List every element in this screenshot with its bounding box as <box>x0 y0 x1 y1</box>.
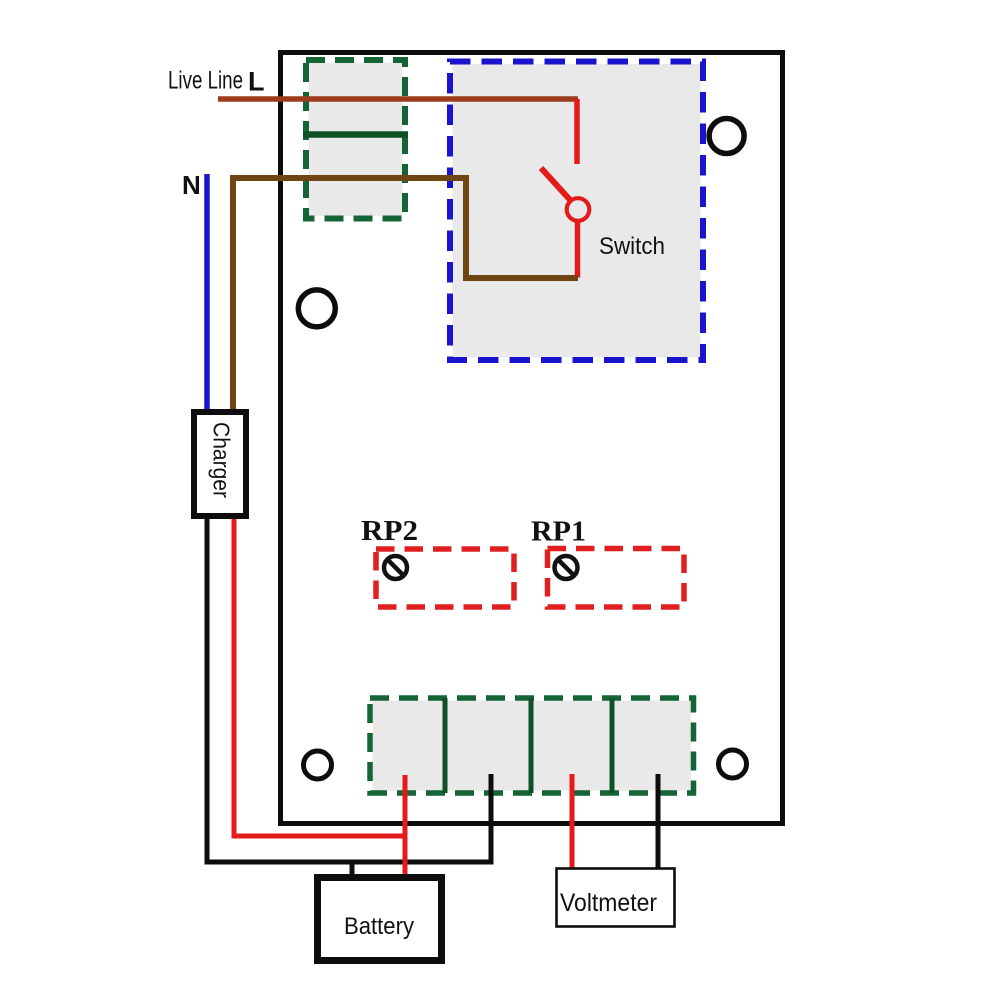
svg-text:L: L <box>248 67 265 97</box>
svg-text:Battery: Battery <box>344 913 414 940</box>
svg-text:N: N <box>182 170 201 200</box>
svg-text:Voltmeter: Voltmeter <box>560 889 657 917</box>
svg-text:RP1: RP1 <box>531 516 586 548</box>
svg-text:Switch: Switch <box>599 233 665 260</box>
svg-text:RP2: RP2 <box>361 515 418 547</box>
svg-text:Live Line: Live Line <box>168 67 243 95</box>
svg-text:Charger: Charger <box>208 422 234 498</box>
